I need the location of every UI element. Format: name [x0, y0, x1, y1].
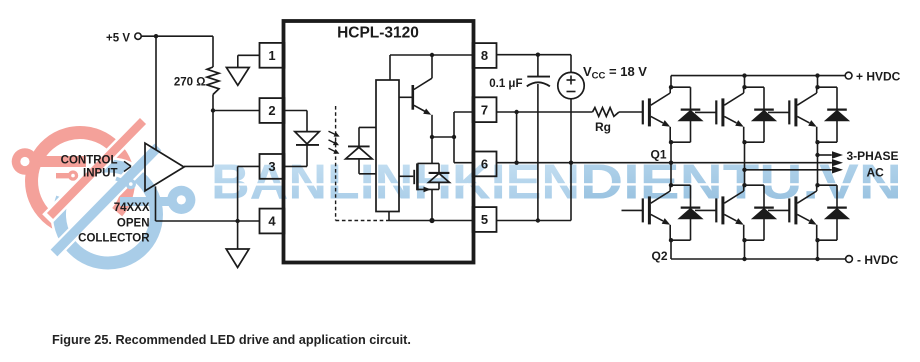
- transistor Q3t IGBT: [695, 111, 716, 113]
- node pin7 tie junction: [514, 110, 518, 114]
- buffer 74XXX open-collector gate triangle: [145, 143, 184, 191]
- resistor Rg: [593, 108, 620, 117]
- node Q3t emitter junction: [742, 140, 746, 144]
- diode antiparallel of Q2: [671, 184, 691, 186]
- ground arrow on pin 1: [226, 68, 249, 86]
- node VCC- to VEE junction: [569, 161, 573, 165]
- transistor Q5t IGBT: [768, 111, 789, 113]
- svg-text:Q1: Q1: [650, 148, 666, 162]
- input chevron mark: [124, 161, 131, 166]
- diode antiparallel of Q3t: [745, 86, 765, 88]
- ground arrow below pin 4 line: [237, 221, 239, 249]
- svg-text:Q2: Q2: [651, 249, 667, 263]
- wire output junction to pins 7-6 bus: [432, 136, 454, 138]
- node Q3t collector junction: [742, 85, 746, 89]
- node pin3/pin4 ground junction: [235, 219, 239, 223]
- wire buffer ground lead: [155, 186, 157, 221]
- svg-text:COLLECTOR: COLLECTOR: [78, 232, 150, 244]
- svg-text:7: 7: [481, 102, 488, 117]
- node Q1 collector junction: [669, 85, 673, 89]
- wire buffer output to junction: [184, 165, 213, 167]
- wire internal VCC rail: [389, 55, 391, 80]
- watermark logo blue circular arrow: [59, 166, 156, 263]
- svg-text:HCPL-3120: HCPL-3120: [337, 25, 419, 42]
- amplifier block: [376, 80, 399, 212]
- node bypass cap junction: [536, 53, 540, 57]
- svg-text:8: 8: [481, 48, 488, 63]
- wire pin 3 to ground junction: [238, 165, 260, 167]
- svg-text:2: 2: [268, 103, 275, 118]
- node Q5t collector junction: [815, 85, 819, 89]
- svg-text:Rg: Rg: [595, 120, 611, 134]
- resistor 270 ohm: [207, 67, 219, 95]
- diode antiparallel of Q1: [671, 86, 691, 88]
- wire internal VEE rail to pin 5: [387, 220, 473, 222]
- diode antiparallel of Q5t: [818, 86, 838, 88]
- svg-text:INPUT: INPUT: [83, 168, 118, 180]
- wire - HVDC bottom rail: [671, 258, 846, 260]
- wire +5V rail to resistor top: [141, 35, 213, 37]
- svg-text:6: 6: [481, 157, 488, 172]
- wire pin 8 to VCC source: [497, 54, 572, 56]
- watermark logo blue trace and pads: [116, 179, 195, 214]
- node resistor/pin2/buffer-out junction: [211, 108, 215, 112]
- node Q6b emitter junction: [815, 238, 819, 242]
- svg-text:OPEN: OPEN: [117, 217, 150, 229]
- watermark logo red trace and pads: [12, 148, 86, 181]
- pin boxes right 5-8: [473, 43, 497, 68]
- transistor Q3 output NPN: [399, 96, 412, 98]
- op-amp U1 HCPL-3120 package body: [284, 21, 474, 263]
- terminal +5V open circle: [135, 33, 141, 39]
- node Q6b collector junction: [815, 183, 819, 187]
- wire + HVDC top rail: [671, 75, 845, 77]
- svg-text:4: 4: [268, 214, 276, 229]
- transistor Q2 IGBT: [622, 209, 643, 211]
- transistor Q1 IGBT: [642, 100, 644, 124]
- light emission arrows: [329, 131, 338, 135]
- svg-text:3-PHASE: 3-PHASE: [847, 149, 899, 163]
- node output junction: [430, 135, 434, 139]
- diode D3 across MOSFET: [438, 163, 440, 173]
- svg-text:+5 V: +5 V: [106, 33, 130, 45]
- svg-text:3: 3: [268, 159, 275, 174]
- voltage source VCC 18V: [570, 55, 572, 73]
- svg-text:5: 5: [481, 212, 488, 227]
- wire resistor bottom lead: [212, 95, 214, 111]
- wire +5V down to buffer supply: [155, 36, 157, 149]
- pin boxes left 1-4: [260, 43, 285, 68]
- transistor Q4b IGBT: [695, 209, 716, 211]
- junction dot on +5V rail: [154, 34, 158, 38]
- svg-text:0.1 μF: 0.1 μF: [489, 78, 522, 90]
- watermark text banlinhkiendientu.vn: [211, 156, 902, 210]
- terminal + HVDC: [845, 72, 852, 79]
- wire junction to pin 2: [213, 110, 260, 112]
- wire 3-phase output line C: [745, 169, 832, 171]
- wire VEE phase line from pin 6: [497, 162, 832, 164]
- watermark logo red circular arrow: [32, 133, 129, 227]
- wire resistor top lead: [212, 36, 214, 67]
- wire 3-phase output line B: [669, 161, 673, 165]
- wire pins 7-6 output to gate resistor: [497, 111, 593, 113]
- watermark logo red slash: [47, 119, 145, 219]
- transistor Q6b IGBT: [768, 209, 789, 211]
- internal shield dashed line: [335, 106, 337, 221]
- terminal - HVDC: [846, 256, 853, 263]
- LED D1 internal: [285, 110, 307, 112]
- wire ground line to pin 4: [156, 220, 260, 222]
- svg-text:CONTROL: CONTROL: [61, 154, 118, 166]
- svg-text:270 Ω: 270 Ω: [174, 77, 206, 89]
- node Q5t emitter junction: [815, 140, 819, 144]
- wire 3-phase output line A: [818, 154, 832, 156]
- node Q4b collector junction: [742, 183, 746, 187]
- capacitor C1 0.1 uF: [537, 55, 539, 77]
- node Q1 emitter junction: [669, 140, 673, 144]
- photodiode D2 internal: [359, 126, 376, 128]
- caption Figure 25: [52, 333, 411, 347]
- node Q2 collector junction: [669, 183, 673, 187]
- wire junction down to buffer output line: [212, 111, 214, 167]
- svg-text:74XXX: 74XXX: [114, 202, 150, 214]
- wire phase leg 2: [744, 76, 746, 88]
- svg-text:1: 1: [268, 48, 275, 63]
- svg-text:AC: AC: [867, 166, 885, 180]
- watermark logo blue slash: [51, 144, 161, 256]
- diode antiparallel of Q6b: [818, 184, 838, 186]
- transistor Q4 pulldown MOSFET: [431, 137, 433, 163]
- node Q2 emitter junction: [669, 238, 673, 242]
- diode antiparallel of Q4b: [745, 184, 765, 186]
- wire Rg to Q1 gate: [619, 111, 643, 113]
- svg-text:+ HVDC: + HVDC: [856, 70, 901, 84]
- wire pin 5 VEE: [497, 220, 572, 222]
- node Q4b emitter junction: [742, 238, 746, 242]
- wire phase leg 3: [817, 76, 819, 88]
- svg-text:- HVDC: - HVDC: [857, 253, 899, 267]
- wire MOSFET source to VEE rail: [431, 189, 433, 220]
- wire phase leg 1: [670, 76, 672, 88]
- node internal VCC junction: [430, 53, 434, 57]
- wire pin 1 no-connect: [238, 54, 260, 56]
- svg-text:VCC = 18 V: VCC = 18 V: [583, 64, 647, 82]
- wire pins 7-6 tie bus: [453, 112, 455, 163]
